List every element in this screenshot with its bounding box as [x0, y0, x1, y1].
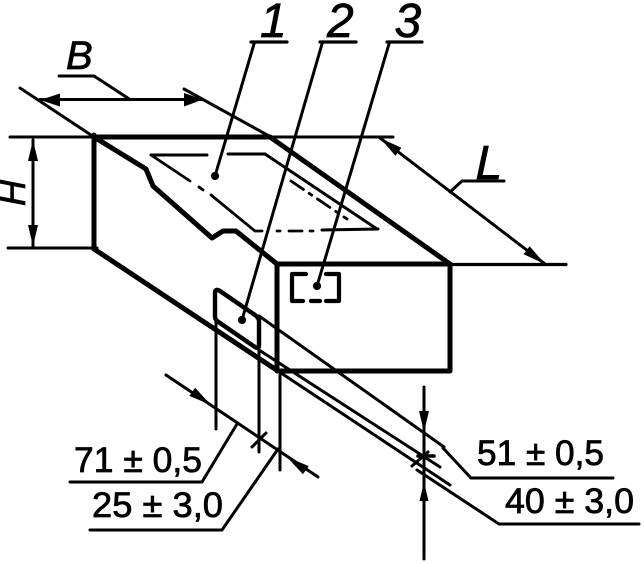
svg-text:51 ± 0,5: 51 ± 0,5 [477, 434, 604, 473]
node label 3 leader [317, 44, 389, 286]
wire H dimension line [32, 140, 35, 246]
node label 2 underline [320, 40, 356, 43]
svg-text:2: 2 [326, 0, 354, 48]
recess bottom solid segment [322, 229, 378, 230]
wire extension D1 from plate top corner [259, 316, 444, 447]
centerline dot 3 [310, 230, 313, 233]
block top face right edge [270, 137, 450, 264]
node label 1 dot [211, 172, 219, 180]
node arrow on 71 dimension [189, 388, 211, 405]
node B extension line right [184, 89, 269, 136]
block left vertical edge [92, 135, 97, 249]
wire right vertical dimension shaft [423, 387, 426, 559]
node horizontal tick terminator [418, 454, 434, 458]
node B label leader [59, 76, 130, 100]
node B arrow right [184, 93, 203, 107]
block bottom-left edge [94, 249, 278, 371]
node arrow on 25 dimension [287, 457, 309, 474]
wire L dimension line [380, 138, 545, 264]
block top back edge [94, 135, 270, 140]
wire B dimension line [40, 98, 203, 101]
wire 51 label leader [443, 448, 613, 478]
wire 71 label leader [70, 424, 237, 482]
node label 1 underline [251, 40, 287, 43]
node slash terminator on vertical dimension [412, 452, 428, 466]
node label 2 leader [242, 44, 322, 320]
wire bottom-left extension line (H bottom) [8, 247, 97, 250]
node H arrow bottom [28, 225, 38, 246]
plate detail 2 rounded outline [215, 290, 259, 348]
svg-text:71 ± 0,5: 71 ± 0,5 [74, 441, 202, 480]
node up arrow on vertical dimension [420, 482, 429, 501]
wire 40 label leader [417, 470, 639, 524]
node down arrow on vertical dimension [419, 411, 429, 432]
centerline dash 2 with bend [211, 195, 262, 231]
detail 3 dashed frame bottom dash [311, 299, 320, 303]
node H arrow top [28, 140, 38, 161]
node L arrow lower [524, 246, 545, 264]
centerline dot 1 [199, 187, 203, 190]
block stepped left edge of top face [94, 137, 277, 264]
svg-text:B: B [66, 34, 93, 78]
wire vertical extension from plate right edge [258, 350, 261, 452]
centerline dash 3 [289, 230, 302, 233]
wire vertical extension from front face corner [279, 375, 282, 470]
svg-text:1: 1 [260, 0, 287, 48]
wire L extension line lower [452, 263, 566, 266]
wire 25 label leader [90, 449, 278, 530]
svg-text:H: H [0, 179, 33, 206]
centerline dot 2 [277, 230, 280, 233]
node label 2 dot [238, 316, 246, 324]
recess right edge on top face [265, 154, 377, 229]
wire top extension line (H top / L upper extension) [10, 136, 393, 139]
recess top edge on top face [151, 154, 207, 157]
recess top edge right part [228, 153, 265, 156]
centerline short inner dash-dot [291, 181, 347, 219]
node B extension line left [20, 88, 94, 137]
svg-text:3: 3 [395, 0, 422, 48]
node label 3 dot [313, 282, 321, 290]
detail 3 dashed frame right bracket [326, 274, 339, 301]
wire extension D2 from plate bottom corner [259, 350, 440, 467]
wire lower-left dimension line [166, 375, 318, 477]
svg-text:25 ± 3,0: 25 ± 3,0 [92, 486, 223, 525]
node slash terminator at 25/71 boundary [252, 433, 266, 447]
detail 3 dashed frame left bracket [292, 274, 306, 301]
node B arrow left [40, 94, 60, 107]
node L label leader [450, 181, 504, 192]
node label 1 leader [215, 44, 254, 176]
node L arrow upper [380, 138, 401, 156]
node label 3 underline [387, 40, 422, 43]
centerline dash 1 [151, 155, 190, 181]
wire vertical extension from plate left edge [215, 322, 218, 429]
front face outline [277, 264, 450, 371]
wire extension of bottom edge (D3) [278, 371, 450, 485]
svg-text:40 ± 3,0: 40 ± 3,0 [505, 482, 634, 521]
